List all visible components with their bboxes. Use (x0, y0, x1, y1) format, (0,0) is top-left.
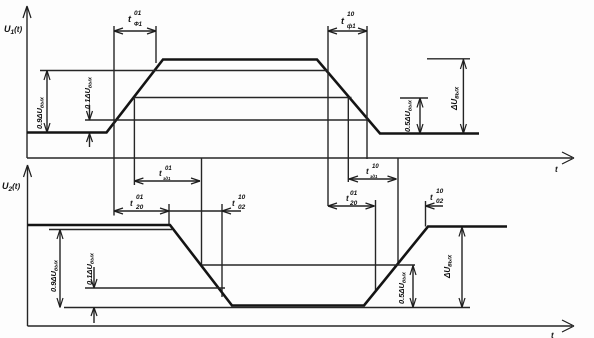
svg-text:t: t (346, 194, 349, 203)
axis U1 vertical (23, 6, 31, 158)
svg-text:t: t (232, 199, 235, 208)
dim 0.1dU U1 (87, 105, 93, 147)
ext low corner rise U2 (375, 200, 377, 290)
waveform U2 (28, 225, 508, 306)
low level reference U2 (64, 307, 470, 309)
dim t20-01 right row (328, 203, 443, 209)
svg-text:t: t (130, 199, 133, 208)
axis U2 time (28, 320, 575, 332)
level line 0.5 U1 right stub (400, 97, 428, 99)
svg-text:t: t (159, 169, 162, 178)
high level extension U1 (427, 58, 470, 60)
axis U1 time (27, 152, 574, 164)
svg-text:20: 20 (135, 204, 144, 211)
dim tzd01 (134, 178, 200, 184)
svg-text:02: 02 (436, 198, 444, 205)
ext 0.5 rise U1 (133, 99, 135, 186)
level line 0.9 U1 (40, 70, 328, 72)
dim 0.5dU U2 (410, 266, 416, 308)
dim dUvyh U2 (459, 227, 465, 308)
ext corner fall U2 (168, 204, 170, 226)
svg-text:01: 01 (350, 190, 358, 197)
dim 0.5dU U1 (417, 98, 423, 133)
dim t20-01 left row (114, 208, 241, 214)
svg-text:10: 10 (347, 11, 355, 18)
dim 0.9dU U2 (57, 230, 63, 308)
dim tf10 top (328, 26, 367, 206)
waveform U1 (27, 60, 479, 134)
level line 0.9 U2 (49, 229, 172, 231)
svg-text:зд1: зд1 (370, 174, 378, 179)
svg-text:02: 02 (238, 204, 246, 211)
svg-text:20: 20 (349, 200, 358, 207)
svg-text:t: t (551, 331, 554, 338)
svg-text:01: 01 (136, 194, 144, 201)
svg-text:01: 01 (165, 166, 172, 172)
ext 0.5 fall U2 left (201, 158, 203, 266)
level line 0.1 U1 (85, 119, 368, 121)
svg-text:t: t (366, 167, 369, 176)
ext high corner rise U2 (425, 201, 427, 227)
level line 0.5 U2 (202, 264, 416, 266)
svg-text:10: 10 (238, 194, 246, 201)
svg-text:ф1: ф1 (347, 23, 356, 30)
dim 0.9dU U1 (44, 71, 50, 133)
dim dUvyh U1 (460, 60, 466, 134)
ext 0.5 rise U2 (397, 158, 399, 265)
svg-text:Ф1: Ф1 (134, 22, 143, 28)
svg-text:10: 10 (372, 164, 379, 170)
svg-text:01: 01 (134, 10, 142, 17)
ext 0.1 fall U2 (221, 204, 223, 297)
svg-text:10: 10 (436, 188, 444, 195)
ext 0.5 fall U1 (347, 98, 349, 183)
svg-text:t: t (555, 165, 558, 174)
svg-text:t: t (430, 193, 433, 202)
axis U2 vertical (24, 165, 32, 326)
dim 0.1dU U2 (91, 267, 97, 323)
dim tzd10 (349, 176, 397, 182)
level line 0.5 U1 (134, 97, 352, 99)
level line 0.1 U2 (85, 287, 225, 289)
svg-text:зд1: зд1 (163, 176, 171, 181)
dim tf01 top (114, 26, 156, 216)
